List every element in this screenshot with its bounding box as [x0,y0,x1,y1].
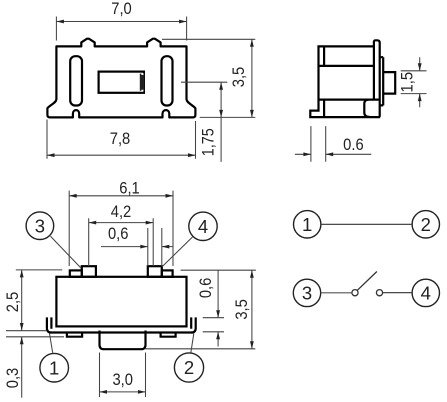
dimension 4,2 front view [89,218,154,266]
top view: right slot [162,56,173,105]
front view: left contact tab [70,270,82,276]
leader balloon 4 [162,237,193,267]
dimension 0,6 front view top [101,228,173,266]
schematic terminal 4 [412,279,439,306]
balloon 2 [174,353,203,382]
switch contact right [376,290,382,296]
svg-text:3,5: 3,5 [233,299,251,320]
top view: contact bar in window [140,74,145,91]
wire 1-2 [321,223,412,225]
dimension 2,5 front view [16,270,63,331]
dimension 1,5 side view [401,57,427,107]
dimension 6,1 front view [69,191,173,266]
dimension 7,0 top view [56,17,186,41]
dimension 3,5 top view [162,39,255,117]
dimension 0.6 side view [295,126,371,162]
top view: switch body outline [47,39,195,118]
svg-text:4,2: 4,2 [111,203,132,221]
top view: central actuator window [99,72,144,93]
svg-text:7,0: 7,0 [111,0,132,18]
top view: left slot [70,56,82,105]
svg-text:3,0: 3,0 [112,371,133,389]
svg-text:2: 2 [184,357,194,378]
side view: bottom right rounded lead [364,100,369,117]
svg-text:3: 3 [35,215,45,236]
switch lever [357,272,377,291]
svg-text:0,6: 0,6 [108,225,129,243]
dimension 0,3 front view [6,331,64,398]
schematic terminal 3 [293,279,320,306]
svg-text:7,8: 7,8 [110,130,131,148]
svg-text:2,5: 2,5 [4,292,22,313]
front view: body [56,277,186,327]
leader balloon 2 [191,334,194,353]
front view: left solder lead [67,333,82,337]
schematic terminal 1 [294,211,321,238]
svg-text:1,75: 1,75 [199,128,217,156]
side view: button [383,72,395,94]
svg-text:0.6: 0.6 [343,136,364,154]
front view: right solder lead [161,333,176,337]
svg-text:6,1: 6,1 [119,179,140,197]
front view: metal frame tray plate [51,331,193,333]
balloon 4 [189,212,217,240]
svg-text:4: 4 [421,283,431,304]
front view: right contact tab [148,266,162,277]
svg-text:1: 1 [49,357,59,378]
svg-text:3,5: 3,5 [230,67,248,88]
wire to 4 [383,292,412,294]
svg-text:0,3: 0,3 [4,368,22,389]
side view: inner verticals and horizontals [319,46,379,117]
svg-text:2: 2 [421,214,431,235]
front view: right hook [191,317,196,332]
dimension 3,5 front view [145,270,255,349]
dimension 7,8 top view [47,120,196,159]
dimension 0,6 front view right [181,270,256,346]
leader balloon 3 [51,236,82,268]
front view: actuator stem [100,331,146,350]
wire from 3 [321,292,352,294]
svg-text:4: 4 [198,216,208,237]
balloon 3 [26,212,54,240]
balloon 1 [40,353,69,382]
leader balloon 1 [50,334,53,354]
svg-text:1: 1 [302,214,312,235]
svg-text:3: 3 [302,283,312,304]
schematic terminal 2 [412,211,439,238]
svg-text:1,5: 1,5 [399,72,417,93]
side view: top tab and right plate [374,40,383,117]
side view: body outline [309,45,380,117]
front view: left hook [47,317,52,332]
switch contact left [352,290,358,296]
dimension 1,75 top view [181,82,227,162]
svg-text:0,6: 0,6 [197,278,215,299]
dimension 3,0 front view [100,353,146,398]
